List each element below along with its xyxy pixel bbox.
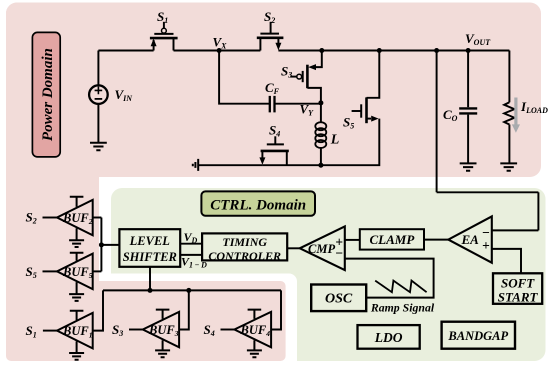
node VY junction <box>318 100 323 105</box>
svg-text:L: L <box>330 133 340 148</box>
buffer BUF4 <box>221 312 272 348</box>
svg-text:OSC: OSC <box>325 292 353 307</box>
svg-text:START: START <box>498 290 539 305</box>
node on left buffer bus <box>99 242 104 247</box>
wire BUF5 output to bus <box>93 270 102 272</box>
ground at BUF4 <box>247 340 262 357</box>
CTRL Domain region background <box>111 188 546 361</box>
svg-text:SHIFTER: SHIFTER <box>123 250 177 264</box>
svg-text:BANDGAP: BANDGAP <box>447 329 508 343</box>
svg-text:EA: EA <box>461 232 480 247</box>
ramp signal waveform <box>375 281 426 293</box>
side ground at S4 source rail <box>193 159 198 171</box>
wire branch down to S5 drain <box>367 51 380 98</box>
svg-text:BUF3: BUF3 <box>148 323 179 338</box>
wire VX down to CF <box>219 51 270 104</box>
resistor ILOAD <box>504 102 514 163</box>
inductor L <box>315 103 326 165</box>
wire feedback down right side <box>537 192 539 230</box>
voltage source VIN <box>89 85 108 104</box>
white gap around bottom buffer region <box>99 274 297 366</box>
power tap at BUF3 <box>156 310 170 319</box>
wire S1 to S2 through node VX <box>174 50 261 52</box>
wire feedback across top of CTRL domain <box>437 191 539 193</box>
wire feedback into EA inverting input <box>492 229 539 231</box>
capacitor CO <box>459 51 477 164</box>
wire VOUT corner into load <box>508 51 510 103</box>
wire S4 to L bottom node <box>262 164 321 166</box>
svg-text:Ramp Signal: Ramp Signal <box>370 301 435 315</box>
svg-text:BUF5: BUF5 <box>62 265 93 280</box>
svg-text:LEVEL: LEVEL <box>129 234 171 248</box>
Power Domain label box <box>32 32 60 156</box>
wire CLAMP to CMP non-inverting input <box>345 239 360 241</box>
block SOFT START <box>493 273 542 304</box>
svg-text:CLAMP: CLAMP <box>370 232 416 247</box>
transistor S4 <box>259 136 288 165</box>
wire BUF1 output riser to gate bus <box>93 290 103 330</box>
wire V1-D between level shifter and timing controler <box>180 254 202 256</box>
svg-text:+: + <box>482 238 490 253</box>
comparator CMP <box>300 226 345 270</box>
buffer BUF3 <box>129 312 179 348</box>
wire BUF3 output riser to gate bus <box>179 290 189 329</box>
buffer BUF2 <box>43 200 93 236</box>
wire branch down to S3 drain <box>316 51 322 68</box>
svg-text:CONTROLER: CONTROLER <box>208 249 281 263</box>
svg-text:TIMING: TIMING <box>222 235 267 249</box>
Power Domain region background left column <box>6 3 99 362</box>
wire EA non-inverting input <box>492 249 521 273</box>
block BANDGAP <box>442 322 515 349</box>
node at S3 branch <box>319 48 324 53</box>
capacitor CF <box>270 96 275 113</box>
block CLAMP <box>360 229 424 249</box>
wire S5 node to VOUT <box>379 50 509 52</box>
wire VIN bottom lead <box>97 104 99 143</box>
wire CMP inverting input from ramp <box>345 259 434 298</box>
ground at BUF2 <box>69 228 84 247</box>
ground at BUF1 <box>69 341 84 359</box>
node gate bus at BUF3 riser <box>186 288 191 293</box>
block OSC <box>311 285 366 312</box>
power tap at BUF1 <box>70 311 84 320</box>
ground at ILOAD <box>500 163 517 170</box>
svg-text:SOFT: SOFT <box>501 275 535 290</box>
node L bottom junction <box>318 163 323 168</box>
wire VIN top lead <box>97 51 99 86</box>
wire bottom gate bus <box>103 289 281 291</box>
transistor S2 <box>257 22 284 51</box>
svg-text:BUF2: BUF2 <box>62 211 93 226</box>
wire left buffer bus vertical <box>100 218 102 272</box>
wire VD between level shifter and timing controler <box>180 243 202 245</box>
transistor S1 <box>150 22 178 51</box>
node VX junction <box>217 48 222 53</box>
Power Domain region background top strip <box>6 3 541 178</box>
wire VIN to S1 <box>98 50 153 52</box>
block TIMING CONTROLER <box>202 233 287 262</box>
wire feedback VOUT down <box>436 51 438 193</box>
node at S5 branch <box>377 48 382 53</box>
node CO tap <box>466 48 471 53</box>
wire LEVEL SHIFTER bottom to gate bus <box>149 267 151 291</box>
buffer row pink region <box>6 281 286 361</box>
buffer BUF1 <box>43 313 93 349</box>
CTRL Domain label box <box>201 191 315 215</box>
wire L node to S5 source corner <box>321 119 379 166</box>
wire S3 node to S5 node <box>322 50 380 52</box>
node feedback tap <box>434 48 439 53</box>
transistor S5 <box>352 97 379 123</box>
wire BUF4 output riser to gate bus <box>271 290 281 329</box>
ILOAD current arrow <box>512 98 520 133</box>
wire side ground to S4 <box>198 164 262 166</box>
transistor S3 <box>290 64 321 103</box>
power tap at BUF4 <box>248 310 262 319</box>
svg-text:CMP: CMP <box>308 242 335 256</box>
wire S2 to S3 branch node <box>278 50 321 52</box>
ground at CO <box>460 163 477 170</box>
ground at VIN <box>90 143 107 150</box>
wire buffer bus into LEVEL SHIFTER <box>101 244 119 246</box>
svg-text:CTRL. Domain: CTRL. Domain <box>210 197 306 213</box>
buffer BUF5 <box>43 254 93 290</box>
block LEVEL SHIFTER <box>119 229 180 267</box>
svg-text:LDO: LDO <box>374 330 403 345</box>
wire CMP output to TIMING CONTROLER <box>287 247 300 249</box>
svg-text:−: − <box>335 245 343 260</box>
ground at BUF3 <box>155 340 170 357</box>
svg-text:BUF4: BUF4 <box>240 323 271 338</box>
op-amp EA <box>448 216 492 262</box>
block LDO <box>358 325 420 349</box>
node gate bus at level shifter <box>148 288 153 293</box>
svg-text:BUF1: BUF1 <box>62 324 92 339</box>
wire BUF2 output to bus <box>93 217 102 219</box>
ground at BUF5 <box>69 282 84 301</box>
power tap at BUF5 <box>70 253 84 261</box>
svg-text:Power Domain: Power Domain <box>40 48 56 141</box>
wire CF to VY <box>275 103 321 105</box>
power tap at BUF2 <box>70 197 84 207</box>
wire EA output to CLAMP <box>424 239 448 241</box>
